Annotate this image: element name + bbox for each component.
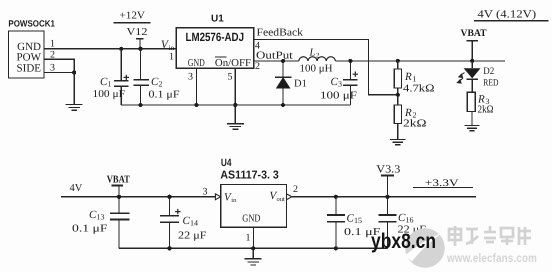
junction C15 bbox=[334, 195, 338, 199]
node C1 bbox=[119, 47, 123, 51]
net label V3.3 bbox=[376, 163, 401, 197]
svg-text:1: 1 bbox=[246, 233, 251, 244]
net label +3.3V bbox=[413, 178, 473, 189]
wire SIDE pin3 bbox=[44, 72, 74, 74]
pin 5 wire (U1 ON/OFF) bbox=[234, 67, 236, 105]
capacitor C1 bbox=[93, 49, 130, 105]
svg-text:LM2576-ADJ: LM2576-ADJ bbox=[186, 30, 245, 44]
ground (R3) bbox=[464, 125, 479, 130]
ground (U1) bbox=[227, 105, 244, 129]
regulator U4 AS1117-3.3 bbox=[220, 157, 286, 227]
svg-text:4.7kΩ: 4.7kΩ bbox=[403, 83, 435, 94]
net label +12V bbox=[113, 10, 150, 49]
svg-text:GND: GND bbox=[188, 58, 205, 69]
wire output rail bbox=[254, 60, 299, 62]
svg-text:0.1 μF: 0.1 μF bbox=[149, 90, 180, 101]
output arrow (U4 pin 2) bbox=[287, 194, 292, 200]
junction VBAT/D2 bbox=[470, 59, 474, 63]
svg-text:VBAT: VBAT bbox=[461, 28, 487, 39]
svg-text:2: 2 bbox=[316, 51, 320, 59]
watermark logo circle bbox=[405, 228, 445, 268]
wire output (bottom) bbox=[292, 196, 476, 198]
resistor R2 bbox=[394, 105, 427, 139]
svg-text:On/OFF: On/OFF bbox=[215, 58, 251, 69]
pin name Vin (U1) bbox=[161, 39, 175, 62]
svg-text:www.elecfans.com: www.elecfans.com bbox=[446, 253, 537, 265]
junction pin3 bottom bbox=[194, 103, 198, 107]
capacitor C2 bbox=[134, 49, 180, 105]
capacitor C14 bbox=[160, 197, 207, 249]
svg-text:D2: D2 bbox=[483, 66, 494, 77]
net label VBAT (bottom) bbox=[107, 175, 130, 197]
junction C16 bbox=[385, 195, 389, 199]
svg-text:1: 1 bbox=[169, 52, 174, 63]
ground (R2) bbox=[390, 139, 405, 144]
capacitor C15 bbox=[327, 197, 381, 249]
svg-text:14: 14 bbox=[190, 219, 198, 228]
wire POW pin2 bbox=[44, 59, 74, 72]
capacitor C13 bbox=[72, 197, 129, 249]
resistor R3 bbox=[467, 92, 493, 125]
net label VBAT (top) bbox=[461, 28, 487, 61]
capacitor C16 bbox=[379, 197, 427, 249]
junction C15 bottom bbox=[334, 246, 338, 250]
svg-text:VBAT: VBAT bbox=[107, 175, 130, 186]
junction D1 bottom bbox=[281, 103, 285, 107]
junction C2 bottom bbox=[138, 103, 142, 107]
svg-text:2kΩ: 2kΩ bbox=[478, 104, 494, 115]
inductor L2 bbox=[299, 47, 336, 74]
input arrow (U4) bbox=[215, 194, 220, 200]
svg-text:5: 5 bbox=[228, 72, 233, 83]
wire to ground bbox=[73, 73, 75, 105]
bottom rail (buck section) bbox=[121, 104, 350, 106]
svg-text:U4: U4 bbox=[221, 157, 232, 169]
pin 1 wire (U4) bbox=[252, 227, 254, 248]
svg-text:SIDE: SIDE bbox=[17, 63, 42, 75]
capacitor C3 bbox=[320, 59, 358, 105]
svg-text:R: R bbox=[404, 71, 412, 83]
junction feedback/R1/R2 bbox=[396, 93, 400, 97]
op IC U1 LM2576-ADJ bbox=[176, 14, 254, 69]
node C2/V12 bbox=[138, 47, 142, 51]
svg-text:D1: D1 bbox=[294, 79, 307, 90]
ground (U4) bbox=[245, 248, 262, 265]
pin 3 wire (U1 GND) bbox=[195, 67, 197, 105]
svg-text:R: R bbox=[404, 107, 412, 119]
svg-text:POWSOCK1: POWSOCK1 bbox=[8, 19, 55, 29]
svg-text:100 μF: 100 μF bbox=[320, 91, 357, 102]
svg-text:3: 3 bbox=[203, 187, 208, 198]
resistor R1 bbox=[394, 59, 435, 105]
svg-text:FeedBack: FeedBack bbox=[257, 28, 304, 39]
junction pin5 bottom bbox=[233, 103, 237, 107]
junction C14 bottom bbox=[167, 246, 171, 250]
svg-text:U1: U1 bbox=[211, 14, 224, 25]
svg-text:OutPut: OutPut bbox=[256, 50, 293, 61]
connector POWSOCK1 bbox=[8, 19, 55, 78]
svg-text:GND: GND bbox=[242, 214, 261, 225]
wire feedback bbox=[254, 40, 397, 95]
svg-text:15: 15 bbox=[354, 216, 362, 225]
svg-text:AS1117-3. 3: AS1117-3. 3 bbox=[220, 170, 278, 182]
junction C14 top bbox=[167, 195, 171, 199]
svg-text:V12: V12 bbox=[127, 27, 148, 38]
diode D1 bbox=[275, 59, 307, 105]
svg-text:22 μF: 22 μF bbox=[178, 231, 207, 242]
svg-text:4V (4.12V): 4V (4.12V) bbox=[477, 8, 536, 20]
svg-text:100 μF: 100 μF bbox=[93, 89, 126, 100]
wire input (bottom) bbox=[61, 196, 215, 198]
svg-text:ybx8.cn: ybx8.cn bbox=[371, 230, 436, 253]
watermark chinese chars bbox=[449, 226, 531, 246]
svg-text:16: 16 bbox=[406, 216, 414, 225]
svg-text:in: in bbox=[231, 197, 237, 204]
bottom ground rail bbox=[119, 247, 388, 249]
svg-text:3: 3 bbox=[338, 80, 342, 89]
svg-text:4V: 4V bbox=[70, 183, 83, 194]
junction pin2/pin3 bbox=[72, 70, 76, 74]
svg-text:0.1 μF: 0.1 μF bbox=[72, 224, 108, 235]
svg-text:3: 3 bbox=[188, 72, 193, 83]
svg-text:100 μH: 100 μH bbox=[300, 63, 333, 74]
svg-text:1: 1 bbox=[108, 80, 112, 89]
svg-text:+12V: +12V bbox=[120, 10, 146, 21]
svg-text:2kΩ: 2kΩ bbox=[403, 118, 427, 129]
LED D2 bbox=[457, 61, 498, 92]
svg-text:V3.3: V3.3 bbox=[376, 163, 401, 175]
svg-text:2: 2 bbox=[159, 80, 163, 89]
wire input rail bbox=[44, 48, 176, 50]
svg-text:3: 3 bbox=[50, 63, 55, 74]
svg-text:1: 1 bbox=[413, 75, 417, 84]
svg-text:out: out bbox=[277, 196, 286, 203]
junction U4 gnd bbox=[251, 246, 255, 250]
svg-text:RED: RED bbox=[483, 78, 498, 88]
svg-text:2: 2 bbox=[293, 184, 298, 195]
svg-text:1: 1 bbox=[50, 39, 55, 50]
net label 4V (4.12V) bbox=[474, 8, 549, 21]
svg-text:13: 13 bbox=[97, 213, 105, 222]
svg-text:2: 2 bbox=[255, 61, 260, 72]
ground (POWSOCK) bbox=[66, 105, 83, 111]
junction C13 bbox=[117, 195, 121, 199]
svg-text:L: L bbox=[309, 47, 316, 58]
